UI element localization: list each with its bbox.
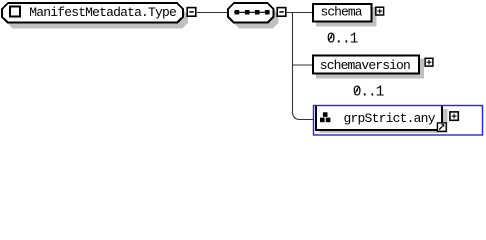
wire from minus button to sequence: [197, 12, 228, 14]
expand button (plus) for schema: [376, 7, 384, 15]
svg-text:schema: schema: [321, 5, 363, 20]
branch wire to schemaversion: [292, 64, 313, 66]
wire to schema: [287, 12, 313, 14]
element schema shadow: [316, 7, 377, 27]
vertical trunk wire with curve into group: [293, 13, 314, 120]
svg-text:0..1: 0..1: [327, 31, 359, 47]
svg-text:ManifestMetadata.Type: ManifestMetadata.Type: [29, 5, 177, 20]
svg-text:schemaversion: schemaversion: [320, 58, 411, 73]
expand button (plus) for schemaversion: [425, 58, 433, 66]
complexType icon: [10, 7, 20, 17]
collapse button (minus) after sequence: [277, 8, 286, 17]
svg-text:0..1: 0..1: [353, 84, 385, 100]
complexType ManifestMetadata.Type box: [2, 3, 183, 23]
group grpStrict.any: white fill of blue frame: [314, 106, 483, 136]
sequence symbol: line with squares: [234, 10, 270, 15]
expand button (plus) for group: [450, 112, 458, 120]
group blue frame border: [314, 106, 483, 136]
svg-text:grpStrict.any: grpStrict.any: [344, 111, 436, 126]
element schemaversion box: [313, 56, 419, 74]
element schema box: [313, 4, 372, 22]
group label box (open at top): [316, 106, 442, 131]
element schemaversion shadow: [316, 59, 424, 79]
collapse button (minus) after ManifestMetadata.Type: [187, 8, 196, 17]
sequence compositor octagon: [228, 3, 274, 23]
group icon (three squares): [320, 112, 330, 122]
complexType ManifestMetadata.Type shadow: [7, 9, 188, 29]
group label box shadow: [320, 109, 448, 133]
sequence compositor shadow: [233, 9, 279, 29]
link arrow icon: [437, 123, 446, 131]
